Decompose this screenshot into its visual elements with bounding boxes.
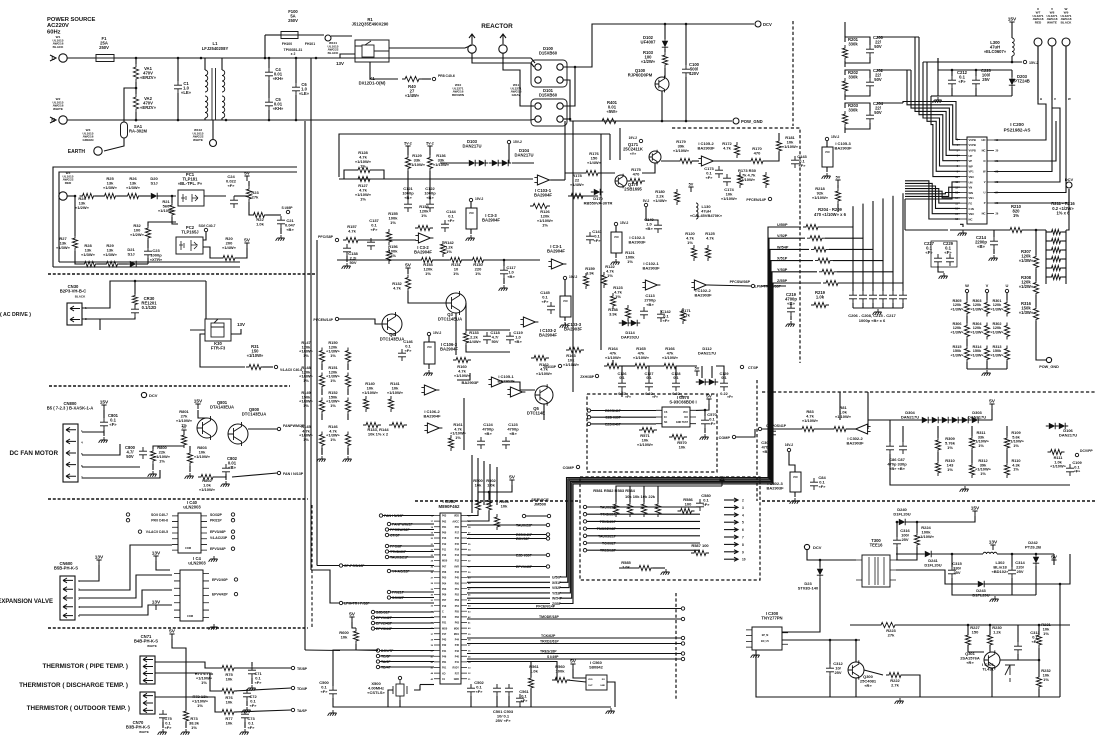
resistor R800 <box>150 448 155 464</box>
wire <box>892 303 894 308</box>
svg-text:EPV4/42P: EPV4/42P <box>212 593 228 597</box>
node FANPWM/2P <box>277 427 280 430</box>
wire <box>642 163 655 173</box>
junction <box>264 57 267 60</box>
svg-text:V/52P: V/52P <box>777 234 788 238</box>
wire <box>685 77 687 121</box>
wire <box>467 608 681 610</box>
wire <box>234 710 291 712</box>
pin D100-3 <box>535 77 541 83</box>
ground <box>424 370 433 376</box>
svg-text:5V: 5V <box>695 366 700 370</box>
wire <box>845 103 870 111</box>
wire <box>551 179 565 181</box>
resistor R500 <box>475 497 480 513</box>
terminal W7 <box>1034 38 1042 46</box>
capacitor C5 <box>265 98 273 110</box>
node TTXD/60P <box>385 550 388 553</box>
wire <box>948 61 1022 63</box>
op-amp BA2903F <box>491 377 503 387</box>
wire <box>204 195 226 197</box>
wire <box>819 560 821 567</box>
wire <box>189 446 191 451</box>
wire sense riser <box>862 204 864 239</box>
net 5V-2 <box>405 146 410 151</box>
svg-text:P20: P20 <box>442 616 447 619</box>
svg-text:C1N: C1N <box>969 207 974 211</box>
svg-text:S I/49P: S I/49P <box>547 655 559 659</box>
net 5V <box>694 371 699 376</box>
capacitor C214 <box>990 237 998 249</box>
wire gnd rail <box>333 698 611 707</box>
wire <box>966 339 968 346</box>
svg-text:VN: VN <box>969 186 973 190</box>
pin D101-4 <box>557 103 563 109</box>
capacitor C118 <box>483 332 491 344</box>
svg-text:P44: P44 <box>455 639 460 642</box>
wire phase V <box>994 108 1060 182</box>
svg-text:COM: COM <box>187 614 193 618</box>
wire <box>829 676 831 697</box>
wire <box>467 511 478 516</box>
svg-text:15V-2: 15V-2 <box>513 140 522 144</box>
wire <box>67 57 96 59</box>
svg-text:VCC: VCC <box>793 476 798 479</box>
svg-text:W/54P: W/54P <box>777 245 789 249</box>
svg-text:I C560S80842: I C560S80842 <box>589 660 604 670</box>
ground <box>611 259 620 265</box>
capacitor C21 <box>277 216 285 228</box>
svg-text:P41: P41 <box>455 661 460 664</box>
resistor R307 <box>1033 254 1038 271</box>
node CP-POS/42P <box>339 564 342 567</box>
wire <box>1011 70 1013 77</box>
node Z6K/36P out <box>546 537 549 540</box>
wire <box>664 68 666 77</box>
resistor R181 <box>776 138 781 154</box>
wire DCV link <box>305 649 340 652</box>
svg-text:FANPWM/2P: FANPWM/2P <box>283 424 305 428</box>
junction <box>574 66 577 69</box>
wire <box>1046 240 1050 242</box>
ground <box>466 235 475 241</box>
svg-text:8: 8 <box>742 543 744 547</box>
diode D303 <box>972 417 978 423</box>
capacitor C24 <box>230 196 238 208</box>
resistor R111 <box>1048 449 1065 454</box>
wire <box>471 34 473 44</box>
node PR/21P o <box>231 519 234 522</box>
wire <box>321 448 323 455</box>
svg-text:5V: 5V <box>182 425 187 429</box>
svg-text:TAUX3/21P: TAUX3/21P <box>390 556 409 560</box>
wire <box>467 592 550 594</box>
wire <box>845 123 870 129</box>
wire dc rail left <box>905 229 948 231</box>
terminal W9 <box>1062 38 1070 46</box>
junction <box>135 119 138 122</box>
junction <box>503 259 506 262</box>
pin D101-3 <box>535 116 541 122</box>
svg-text:VCC: VCC <box>614 236 619 239</box>
svg-text:HO: HO <box>981 138 985 142</box>
wire <box>389 545 434 547</box>
svg-text:10: 10 <box>742 558 746 562</box>
wire mid bus 1 <box>564 121 566 180</box>
wire <box>967 368 1007 370</box>
svg-text:X/51P: X/51P <box>777 257 788 261</box>
wire <box>1017 625 1019 642</box>
wire <box>587 528 700 530</box>
dashed separator 3 <box>48 498 308 500</box>
transistor Q3 <box>446 293 466 313</box>
shunt ref IC301 <box>1005 665 1015 682</box>
svg-text:GND TEST: GND TEST <box>676 421 689 424</box>
svg-text:EPV3/46P: EPV3/46P <box>210 530 226 534</box>
wire <box>1062 276 1066 278</box>
junction <box>819 559 822 562</box>
resistor R178 <box>568 193 586 198</box>
capacitor C312 <box>826 664 834 676</box>
svg-text:5V: 5V <box>244 237 251 243</box>
diode D21 <box>130 261 136 267</box>
net 15V <box>195 404 200 409</box>
capacitor C174 <box>723 174 731 186</box>
wire <box>864 670 883 675</box>
svg-text:FAN I N/13P: FAN I N/13P <box>283 472 304 476</box>
diode D170 <box>594 189 600 195</box>
node SO/32P o <box>231 513 234 516</box>
capacitor C109 <box>1066 464 1074 476</box>
svg-text:WN: WN <box>969 191 974 195</box>
capacitor C143 <box>791 156 799 168</box>
resistor R159 <box>583 273 588 289</box>
svg-text:P51: P51 <box>455 588 460 591</box>
wire <box>938 266 944 272</box>
capacitor C142 <box>657 310 665 322</box>
svg-text:GND: GND <box>600 685 605 687</box>
wire <box>428 364 430 369</box>
wire <box>975 70 977 76</box>
svg-text:VCC: VCC <box>563 300 568 303</box>
node EPV2/43P in <box>371 621 374 624</box>
wire <box>204 118 206 120</box>
net 5V <box>244 176 249 181</box>
wire <box>463 398 465 450</box>
inductor L302 <box>983 552 997 554</box>
svg-text:P27: P27 <box>455 672 460 675</box>
wire <box>321 414 323 420</box>
wire <box>951 70 953 76</box>
svg-text:V4-AC/23P: V4-AC/23P <box>210 536 228 540</box>
wire <box>1006 450 1008 463</box>
ground IC40 <box>209 556 218 562</box>
node JM500 a <box>522 514 525 517</box>
capacitor C212 <box>948 76 956 88</box>
wire <box>380 655 434 657</box>
resistor R213 <box>1049 247 1064 252</box>
resistor R129 <box>405 155 410 172</box>
wire <box>79 590 172 607</box>
junction <box>829 639 832 642</box>
wire <box>343 602 434 604</box>
node TMODE/18P out <box>681 617 684 620</box>
resistor R128 <box>355 167 373 172</box>
resistor R401 <box>599 118 619 123</box>
wire <box>263 366 273 368</box>
net 15V <box>1009 22 1014 27</box>
terminal DCV smps <box>804 544 809 549</box>
wire <box>189 466 191 472</box>
svg-text:R203330k: R203330k <box>848 103 859 113</box>
resistor R147 <box>319 348 324 365</box>
node U <box>1005 289 1008 292</box>
wire <box>896 570 975 584</box>
wire sense riser <box>872 201 874 249</box>
node EPV3/44P in <box>371 627 374 630</box>
wire <box>375 622 434 624</box>
ground <box>185 473 194 479</box>
wire <box>531 58 535 63</box>
resistor R224 <box>914 532 919 548</box>
svg-text:TMODE/18P: TMODE/18P <box>539 615 560 619</box>
wire <box>251 678 253 684</box>
node E2D I/39P out <box>546 553 549 556</box>
svg-text:WHITE: WHITE <box>147 644 157 648</box>
svg-text:FANPWM/2P: FANPWM/2P <box>392 523 413 527</box>
wire <box>135 58 137 64</box>
wire <box>420 684 434 686</box>
wire <box>470 229 472 234</box>
capacitor C313 <box>1014 642 1022 654</box>
transistor Q100 <box>655 77 669 91</box>
wire <box>370 62 398 79</box>
wire <box>591 423 656 425</box>
wire <box>428 336 430 342</box>
transformer T300 <box>862 555 890 587</box>
wire <box>82 431 104 433</box>
wire <box>185 722 187 728</box>
resistor R31 <box>246 364 264 369</box>
resistor R305 <box>964 300 969 317</box>
net 5V <box>570 664 575 669</box>
wire rc link 1 <box>877 36 919 38</box>
svg-text:PR/21P: PR/21P <box>210 519 222 523</box>
wire <box>103 410 105 418</box>
svg-text:NC: NC <box>982 149 986 153</box>
wire <box>908 516 975 522</box>
wire <box>380 666 434 668</box>
resistor R148 <box>319 373 324 390</box>
wire <box>249 202 253 215</box>
svg-text:P06: P06 <box>442 594 447 597</box>
ground cap bank <box>873 309 882 315</box>
wire <box>896 624 1070 626</box>
dashed separator comparator top <box>762 391 1095 393</box>
wire <box>155 697 222 712</box>
transistor Q170 <box>615 175 627 187</box>
wire <box>471 505 473 513</box>
svg-text:u: u <box>1040 97 1042 101</box>
wire <box>630 486 722 502</box>
svg-text:CS: CS <box>664 411 668 414</box>
wire rc link 4 <box>923 61 948 63</box>
resistor R206 <box>811 247 829 252</box>
capacitor C127 <box>645 379 653 391</box>
diode D303 <box>962 417 968 423</box>
wire SA1 to earth <box>104 138 124 151</box>
node DCV/PP <box>1075 453 1078 456</box>
ground micro right <box>606 708 615 714</box>
svg-text:TE/8P: TE/8P <box>297 667 308 671</box>
wire <box>234 688 291 691</box>
capacitor C122 <box>426 200 434 212</box>
capacitor C219 <box>787 304 795 316</box>
svg-text:P52: P52 <box>455 594 460 597</box>
wire <box>119 263 128 265</box>
junction <box>1035 553 1038 556</box>
wire <box>433 259 449 261</box>
wire <box>429 146 431 155</box>
wire <box>375 611 434 613</box>
wire <box>508 144 510 163</box>
diode D103/D104 <box>502 160 508 166</box>
wire <box>82 466 140 468</box>
svg-text:15V: 15V <box>100 399 109 405</box>
wire <box>789 452 795 472</box>
wire <box>647 365 664 367</box>
wire <box>826 167 828 172</box>
wire <box>615 226 617 232</box>
ground micro <box>328 710 337 716</box>
wire <box>1035 230 1037 255</box>
svg-text:W: W <box>965 283 969 288</box>
junction <box>1059 583 1062 586</box>
resistor R77 <box>219 709 237 714</box>
svg-text:LPM-TR I P/33P: LPM-TR I P/33P <box>344 602 370 606</box>
wire micro top bus <box>471 455 473 505</box>
wire W10 to bridge <box>472 53 531 63</box>
junction <box>975 69 978 72</box>
svg-text:PFCSW/36P: PFCSW/36P <box>730 280 751 284</box>
svg-text:R7510k: R7510k <box>225 672 233 682</box>
IC U200 body <box>967 137 987 224</box>
wire sense riser <box>902 193 904 283</box>
node EPV2/40P o <box>234 578 237 581</box>
terminal POW_GND 2 <box>1046 357 1051 362</box>
core L1 <box>212 68 216 120</box>
wire mid bus 4 <box>619 128 621 160</box>
wire <box>407 146 409 155</box>
wire <box>1036 321 1046 360</box>
wire <box>74 196 76 236</box>
svg-text:POW_GND: POW_GND <box>741 119 763 124</box>
svg-text:P03: P03 <box>442 588 447 591</box>
resistor R204 <box>803 224 821 229</box>
node Z64/33P <box>558 364 561 367</box>
wire IC200 ctrl bus <box>923 62 960 166</box>
wire <box>530 662 532 678</box>
resistor R309 <box>935 437 940 453</box>
wire <box>391 523 434 525</box>
svg-text:PR/21P: PR/21P <box>392 591 405 595</box>
wire P <box>994 189 1069 203</box>
svg-text:I C105-2BA2903F: I C105-2BA2903F <box>697 141 715 151</box>
resistor R306 <box>964 323 969 340</box>
wire IC200 sense bus <box>905 193 960 194</box>
svg-text:9: 9 <box>742 550 744 554</box>
wire <box>1018 654 1039 660</box>
wire <box>79 605 172 615</box>
capacitor C73 <box>241 710 249 722</box>
resistor R20 <box>220 255 238 260</box>
wire <box>360 239 416 241</box>
wire <box>82 470 160 478</box>
wire <box>391 570 434 572</box>
wire <box>422 78 431 80</box>
terminal EARTH <box>94 147 102 155</box>
ground <box>247 685 256 691</box>
net 5V <box>244 243 249 248</box>
svg-text:P44: P44 <box>455 571 460 574</box>
resistor R216 <box>1049 274 1064 279</box>
wire sense riser <box>882 198 884 260</box>
wire IC200 sense bus <box>905 182 960 199</box>
wire <box>587 542 700 544</box>
net 5V <box>1051 560 1056 565</box>
resistor R310 <box>935 460 940 476</box>
svg-text:R587 100: R587 100 <box>691 543 709 548</box>
svg-text:P07: P07 <box>442 599 447 602</box>
crystal X500 <box>396 684 404 696</box>
wire <box>902 303 904 308</box>
wire <box>989 645 991 652</box>
resistor R120 <box>691 245 696 261</box>
wire <box>67 195 75 197</box>
wire left bus 3 <box>316 240 318 566</box>
svg-text:SO/I C40-7: SO/I C40-7 <box>199 224 216 228</box>
svg-text:FG: FG <box>969 202 973 206</box>
wire <box>352 622 356 628</box>
wire <box>701 366 703 378</box>
svg-text:5V: 5V <box>989 398 996 404</box>
wire <box>966 362 968 369</box>
wire CP-POS link <box>317 565 339 567</box>
wire <box>782 620 820 632</box>
pins IC500 <box>434 516 467 679</box>
wire <box>79 545 172 590</box>
ground IC300 <box>751 652 760 658</box>
wire <box>172 639 186 710</box>
wire <box>993 249 995 254</box>
wire <box>1011 554 1013 567</box>
wire <box>526 515 547 517</box>
wire <box>978 409 992 420</box>
svg-text:15V: 15V <box>971 505 980 511</box>
svg-text:EP_M: EP_M <box>762 634 769 637</box>
svg-text:DCV/PP: DCV/PP <box>1080 449 1093 453</box>
wire <box>967 625 969 635</box>
ground smps rail <box>895 698 904 704</box>
wire <box>1006 361 1008 369</box>
svg-text:EPV1/43P: EPV1/43P <box>516 565 533 569</box>
svg-text:I C102-2BA2903F: I C102-2BA2903F <box>694 288 712 298</box>
wire <box>380 650 434 652</box>
node E2SK/40P out <box>546 533 549 536</box>
svg-text:5V: 5V <box>836 175 841 179</box>
svg-text:5V: 5V <box>570 658 577 664</box>
wire <box>519 706 521 707</box>
